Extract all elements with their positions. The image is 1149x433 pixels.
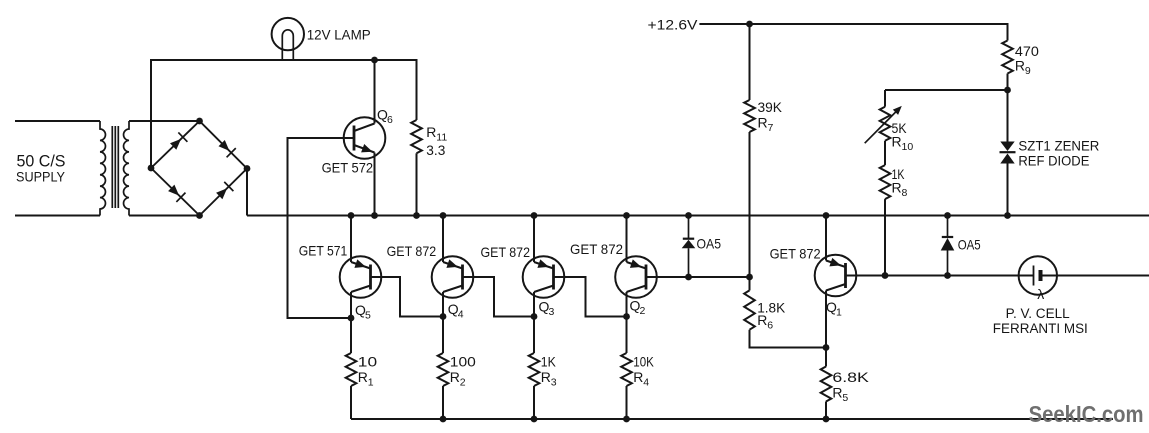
svg-text:6: 6 [387,114,393,126]
node bridge left [148,165,155,172]
svg-text:3: 3 [551,376,557,388]
label R2 value [450,353,476,369]
wire Q6 base [288,138,355,318]
resistor R10 5K variable [865,106,902,143]
wire main bus [247,215,1149,217]
svg-text:FERRANTI MSI: FERRANTI MSI [993,321,1088,336]
node bottom rail junction [823,416,830,423]
wire bridge side lower-left [151,168,200,216]
node Q6 emitter bus [371,212,378,219]
wire Q5 base to Q4 collector [371,277,444,317]
transistor Q5 [340,256,382,298]
node Q5 collector junction [348,315,355,322]
svg-text:λ: λ [1037,286,1044,302]
wire Q5 emitter to bus [350,216,352,263]
text Q1 [826,299,842,319]
svg-text:1: 1 [368,376,374,388]
wire Q3 base to Q2 collector [554,277,627,317]
text GET 571 for Q5 [299,243,348,259]
svg-text:R: R [633,369,643,385]
label R10 5K [892,120,914,153]
svg-text:GET 872: GET 872 [481,244,531,260]
text GET 872 for Q3 [481,244,531,260]
text GET 872 for Q4 [387,243,437,259]
text OA5 no.1 [697,235,722,251]
wire supply top lead [15,120,100,122]
wire +12.6V top rail [699,24,1007,41]
resistor R11 [411,120,422,216]
lamp 12V [272,18,304,60]
node zener bus [1004,212,1011,219]
node Q2 collector junction [623,313,630,320]
node Q1 emitter junction [823,344,830,351]
svg-text:GET 872: GET 872 [387,243,437,259]
transistor Q1 [815,255,857,297]
transistor Q4 [432,256,474,298]
node bridge bottom [196,212,203,219]
text Q2 [630,298,646,318]
resistor R2 [438,317,449,420]
svg-text:R: R [757,312,767,328]
wire Q6 emitter to bus [374,153,376,216]
svg-text:10K: 10K [633,353,654,369]
node R7 top rail [746,21,753,28]
svg-text:R: R [758,115,768,131]
text 12V LAMP [307,27,371,42]
svg-text:5: 5 [842,392,848,404]
diode bridge D-upper-right [219,140,236,157]
wire Q3 collector down [533,292,535,317]
label R3 value [541,353,557,369]
svg-text:R: R [892,133,902,149]
svg-text:1K: 1K [541,353,557,369]
diode bridge D-upper-left [170,132,187,149]
label R7 39K [758,99,783,134]
node R11 bus [413,212,420,219]
svg-text:+12.6V: +12.6V [648,18,698,33]
label R9 470 [1015,43,1039,77]
photovoltaic cell [1019,256,1057,302]
diode OA5 no.1 [682,216,696,278]
svg-text:OA5: OA5 [958,236,981,252]
label R2 name [450,369,466,389]
label R4 value [633,353,654,369]
wire Q3 emitter to bus [533,216,535,263]
resistor R6 [744,277,826,348]
transistor Q6 [344,117,386,159]
label R8 1K [892,166,908,199]
resistor R5 [821,348,832,420]
svg-text:R: R [1015,57,1025,73]
svg-text:4: 4 [643,376,649,388]
svg-text:GET 872: GET 872 [570,241,623,257]
svg-text:OA5: OA5 [697,235,722,251]
node OA5-2 bottom [944,272,951,279]
svg-text:5: 5 [365,310,371,322]
node bridge top [196,118,203,125]
label R5 6.8K [832,369,869,404]
wire secondary top lead [129,120,200,122]
wire bridge side upper-left [151,121,200,168]
node OA5-2 top bus [944,212,951,219]
wire P.V. cell output [1041,275,1149,277]
wire Q4 base to Q3 collector [463,277,535,317]
wire Q6 collector [374,60,376,124]
wire Q1 top to bus [825,216,827,261]
node Q3 collector junction [531,313,538,320]
text Q3 [539,299,555,319]
svg-text:2: 2 [460,376,466,388]
diode OA5 no.2 [941,216,955,276]
svg-text:R: R [541,369,551,385]
svg-text:R: R [892,179,902,195]
node Q2 emitter bus [623,212,630,219]
label R11 3.3 [426,124,447,158]
label R1 value [358,353,378,369]
resistor R7 [744,24,755,277]
resistor R8 [880,141,891,276]
node R8 bottom [882,272,889,279]
zener diode SZT1 [1000,142,1016,216]
text GET 872 for Q1 [770,245,821,261]
svg-text:3.3: 3.3 [426,142,445,158]
wire bridge side lower-right [200,169,248,216]
svg-text:R: R [832,384,842,400]
transistor Q2 [615,256,657,298]
svg-text:SUPPLY: SUPPLY [16,169,66,185]
svg-text:10: 10 [902,141,914,153]
node bottom rail junction [623,416,630,423]
text +12.6V [648,18,698,33]
svg-text:6.8K: 6.8K [832,369,869,385]
svg-text:10: 10 [358,353,378,369]
svg-text:4: 4 [458,308,464,320]
transistor Q3 [523,256,565,298]
text Q4 [448,301,464,321]
wire secondary bottom lead [129,215,200,217]
svg-text:GET 872: GET 872 [770,245,821,261]
wire R10 top feed [885,90,1008,107]
svg-text:6: 6 [767,319,773,331]
svg-text:P. V. CELL: P. V. CELL [1006,306,1070,321]
text OA5 no.2 [958,236,981,252]
wire Q2 collector down [626,292,628,317]
svg-text:8: 8 [902,187,908,199]
watermark SeekIC.com [1029,401,1144,427]
wire Q5 collector down [350,292,352,318]
wire Q4 emitter to bus [442,216,444,263]
svg-text:SeekIC.com: SeekIC.com [1029,401,1144,427]
svg-text:9: 9 [1025,65,1031,77]
label R1 name [358,369,374,389]
wire Q1 base line [846,275,1034,277]
resistor R3 [529,317,540,420]
wire bottom rail [351,418,1113,420]
node Q5 emitter bus [348,212,355,219]
label R6 1.8K [757,299,786,331]
text SZT1 ZENER REF DIODE [1018,137,1099,168]
wire bridge side upper-right [200,121,248,169]
resistor R9 [1002,41,1013,143]
node OA5-1 top bus [685,212,692,219]
transformer T1 secondary winding [124,121,129,216]
wire Q1 bottom [825,291,827,348]
node bottom rail junction [531,416,538,423]
wire lamp rail [151,60,417,168]
svg-text:3: 3 [549,306,555,318]
wire Q4 collector down [442,292,444,317]
svg-text:R: R [358,369,368,385]
wire Q2 base line [646,276,750,278]
text Q5 [355,302,371,322]
svg-text:39K: 39K [758,99,783,115]
svg-text:R: R [450,369,460,385]
wire bridge right node to bus [246,169,248,216]
text GET 872 for Q2 [570,241,623,257]
node OA5-1 bottom [685,274,692,281]
label R4 name [633,369,649,389]
transformer T1 primary winding [100,121,105,216]
node R10 feed zener [1004,87,1011,94]
svg-text:12V LAMP: 12V LAMP [307,27,371,42]
svg-text:R: R [426,124,436,140]
svg-text:REF DIODE: REF DIODE [1018,152,1089,168]
node Q4 emitter bus [440,212,447,219]
wire Q2 emitter to bus [626,216,628,263]
diode bridge D-lower-right [216,182,233,199]
svg-text:SZT1 ZENER: SZT1 ZENER [1018,137,1099,153]
node R7 R6 junction [746,274,753,281]
svg-text:GET 571: GET 571 [299,243,348,259]
node Q3 emitter bus [531,212,538,219]
node bridge right [244,165,251,172]
label R3 name [541,369,557,389]
node lamp rail junction [371,57,378,64]
svg-text:100: 100 [450,353,476,369]
text Q6 [377,107,393,127]
diode bridge D-lower-left [168,185,185,202]
resistor R1 [346,318,357,419]
svg-text:1: 1 [836,307,842,319]
transformer T1 core [112,126,118,208]
text GET 572 [322,159,374,175]
svg-text:2: 2 [640,305,646,317]
node Q1 bus [823,212,830,219]
svg-text:7: 7 [768,122,774,134]
resistor R4 [621,317,632,420]
wire supply bottom lead [15,215,100,217]
node bottom rail junction [440,416,447,423]
node Q4 collector junction [440,313,447,320]
text 50 C/S SUPPLY [16,153,66,185]
svg-text:GET 572: GET 572 [322,159,374,175]
text P. V. CELL FERRANTI MSI [993,306,1088,336]
